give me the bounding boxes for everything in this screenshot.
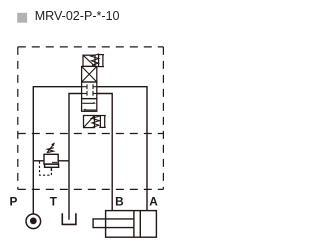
relief valve inlet connection [33, 160, 44, 162]
cylinder body [106, 211, 157, 238]
relief valve adjustable spring [47, 148, 54, 153]
solenoid b (bottom, box with diagonal) [84, 116, 95, 128]
valve position box: parallel flow [82, 99, 97, 112]
double-bar element top [98, 55, 100, 67]
svg-text:B: B [115, 194, 124, 208]
pump circle [26, 214, 41, 229]
dashed divider line between valve sections [18, 133, 164, 135]
wire P line [33, 87, 81, 214]
pilot line (dashed) [40, 161, 52, 175]
cylinder piston [133, 211, 135, 238]
spring bottom [92, 116, 100, 127]
double-bar element bottom [99, 115, 101, 127]
title bullet square [17, 13, 27, 23]
wire B line [97, 94, 112, 211]
tank symbol [62, 213, 76, 224]
wire T line [69, 94, 82, 220]
svg-text:A: A [149, 194, 158, 208]
relief valve internal mark [52, 161, 57, 163]
wire A line [97, 87, 147, 211]
solenoid a (top, box with diagonal) [83, 55, 95, 66]
relief valve drain stub [50, 167, 52, 171]
svg-text:MRV-02-P-*-10: MRV-02-P-*-10 [35, 9, 120, 23]
relief valve outlet connection to T [58, 160, 69, 162]
svg-text:T: T [50, 194, 58, 208]
svg-text:P: P [10, 194, 18, 208]
cylinder rod [93, 219, 134, 228]
dashed enclosure border [18, 46, 164, 48]
valve position box: closed centre [82, 82, 97, 99]
valve position box: crossed (X) [82, 66, 97, 82]
spring top [91, 54, 99, 65]
relief valve body [44, 154, 58, 164]
